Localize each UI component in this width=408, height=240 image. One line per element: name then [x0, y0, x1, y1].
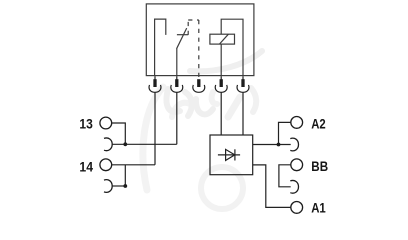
svg-text:BB: BB — [311, 158, 328, 174]
svg-text:14: 14 — [79, 159, 93, 175]
svg-text:A1: A1 — [311, 199, 326, 215]
svg-text:A2: A2 — [311, 115, 326, 131]
svg-text:13: 13 — [79, 116, 93, 132]
